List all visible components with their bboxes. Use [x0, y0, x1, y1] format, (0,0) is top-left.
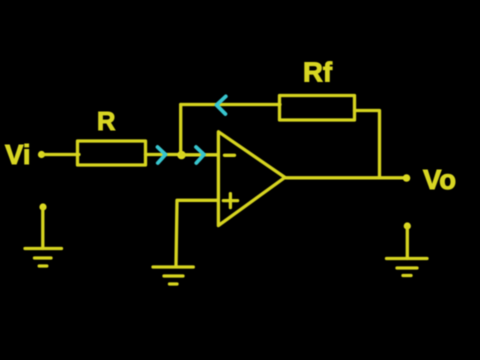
resistor R [78, 141, 146, 165]
svg-text:R: R [97, 108, 115, 136]
op-amp U1 [218, 132, 285, 226]
svg-text:Vi: Vi [5, 139, 31, 170]
wire Rf to output node [355, 111, 380, 178]
wire feedback vertical (node A up) [179, 105, 182, 156]
wire feedback horizontal to Rf [181, 103, 280, 106]
ground middle (non-inverting input) [153, 267, 193, 284]
op-amp minus pin label [225, 154, 235, 157]
ground right (output reference) [387, 227, 428, 276]
wire op-amp output to Vo [285, 176, 405, 179]
terminal output reference ground [404, 222, 411, 229]
terminal Vo [403, 174, 411, 182]
wire non-inverting input to ground [176, 200, 218, 266]
wire node A to op-amp inverting input [182, 153, 218, 156]
wire R to node A [146, 153, 182, 156]
op-amp plus pin label [223, 194, 237, 208]
wire Vi to resistor R [43, 153, 79, 156]
current arrow node A to op-amp [196, 147, 204, 163]
current arrow R to node A [158, 147, 166, 163]
terminal Vi [38, 151, 45, 158]
svg-text:Vo: Vo [423, 164, 456, 195]
svg-text:Rf: Rf [303, 57, 333, 88]
ground left (input reference) [25, 208, 62, 266]
current arrow feedback (pointing left) [217, 96, 226, 114]
node A (inverting input junction) [177, 151, 186, 160]
terminal input reference ground [39, 203, 46, 210]
resistor Rf [280, 96, 355, 121]
